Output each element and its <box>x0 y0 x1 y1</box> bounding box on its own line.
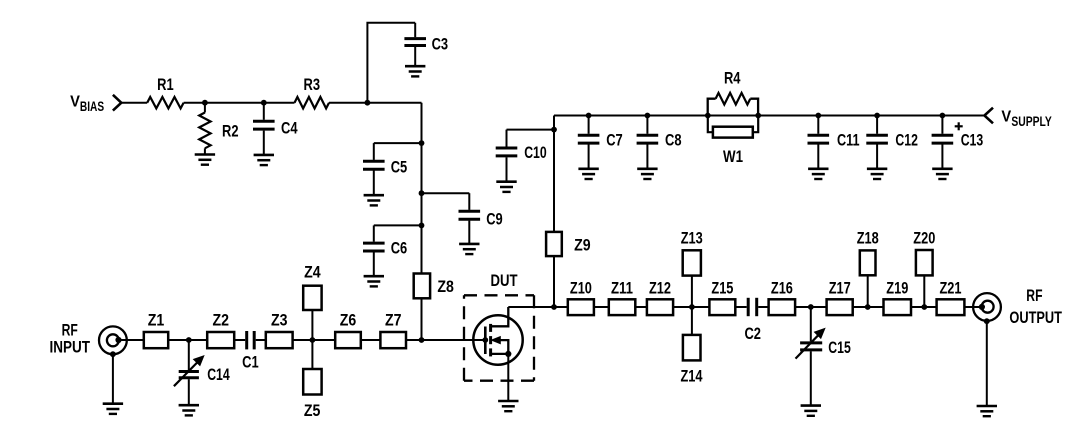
capacitor C6 <box>363 225 407 276</box>
svg-text:Z11: Z11 <box>611 278 633 297</box>
capacitor C7 <box>578 116 623 169</box>
DUT source <box>492 351 512 401</box>
svg-text:OUTPUT: OUTPUT <box>1009 308 1062 327</box>
node R4 right junction <box>755 113 761 119</box>
svg-text:C11: C11 <box>837 130 860 149</box>
svg-text:SUPPLY: SUPPLY <box>1011 114 1051 129</box>
node Z18 junction <box>865 304 871 310</box>
svg-text:Z19: Z19 <box>886 278 908 297</box>
resistor R4 <box>708 68 758 115</box>
svg-text:C12: C12 <box>895 130 918 149</box>
node Z13 Z14 junction <box>689 304 695 310</box>
capacitor C10 <box>496 130 547 182</box>
wire <box>553 116 555 232</box>
terminal VBIAS label <box>70 94 104 115</box>
wire <box>234 339 245 341</box>
wire <box>507 129 555 131</box>
ground <box>637 169 657 179</box>
svg-text:C3: C3 <box>432 34 449 53</box>
wire <box>374 224 422 226</box>
wire <box>406 339 483 341</box>
svg-text:Z4: Z4 <box>304 263 321 282</box>
svg-text:Z7: Z7 <box>385 311 402 330</box>
impedance Z1 <box>144 311 168 349</box>
capacitor C5 <box>363 143 407 195</box>
svg-text:Z20: Z20 <box>913 228 935 247</box>
wire <box>964 306 982 308</box>
node C8 junction <box>645 113 651 119</box>
svg-text:Z15: Z15 <box>711 278 733 297</box>
svg-text:INPUT: INPUT <box>49 338 90 357</box>
impedance Z8 <box>414 274 454 299</box>
impedance Z19 <box>884 278 912 315</box>
node C9 branch <box>419 190 425 196</box>
impedance Z4 <box>303 263 321 341</box>
svg-text:R3: R3 <box>304 75 321 94</box>
capacitor C1 <box>242 331 259 372</box>
svg-text:C2: C2 <box>744 324 761 343</box>
node C4 junction <box>261 100 267 106</box>
wire <box>594 306 609 308</box>
svg-text:Z18: Z18 <box>857 228 879 247</box>
wire <box>735 306 746 308</box>
svg-text:DUT: DUT <box>491 271 519 290</box>
wire <box>121 102 147 104</box>
svg-text:Z3: Z3 <box>271 311 288 330</box>
transistor DUT MOSFET body <box>473 315 522 364</box>
DUT drain <box>492 307 509 326</box>
svg-text:R2: R2 <box>222 121 239 140</box>
capacitor C12 <box>866 116 918 169</box>
DUT body arrow <box>492 337 509 353</box>
svg-text:Z13: Z13 <box>681 228 703 247</box>
svg-text:Z12: Z12 <box>649 278 671 297</box>
terminal VSUPPLY label <box>1001 109 1051 129</box>
DUT dashed box <box>464 295 534 380</box>
ground <box>808 169 828 179</box>
ground <box>459 244 479 254</box>
wire <box>635 306 647 308</box>
impedance Z21 <box>937 278 965 315</box>
node C6 branch <box>419 223 425 229</box>
svg-text:R1: R1 <box>157 75 174 94</box>
DUT gate <box>482 327 488 355</box>
wire <box>421 298 423 340</box>
impedance Z5 <box>303 340 321 420</box>
wire <box>119 339 144 341</box>
wire <box>256 339 266 341</box>
wire <box>374 142 422 144</box>
wire <box>553 256 555 307</box>
impedance Z7 <box>380 311 406 349</box>
svg-text:Z9: Z9 <box>574 235 591 254</box>
wire <box>361 339 381 341</box>
impedance Z2 <box>207 311 234 349</box>
terminal RF OUTPUT label <box>1009 286 1062 327</box>
ground <box>195 155 215 165</box>
capacitor C15 variable <box>796 307 851 406</box>
ground <box>496 182 516 192</box>
svg-text:C6: C6 <box>391 239 408 258</box>
wire <box>367 23 415 103</box>
ground <box>179 405 199 415</box>
svg-text:Z16: Z16 <box>771 278 793 297</box>
capacitor C2 <box>744 298 761 343</box>
VSUPPLY chevron <box>984 108 993 124</box>
impedance Z18 <box>857 228 879 307</box>
node C11 junction <box>815 113 821 119</box>
node C10 branch <box>551 127 557 133</box>
capacitor C9 <box>459 193 503 244</box>
ground <box>801 406 821 416</box>
capacitor C13 polarized <box>932 116 984 169</box>
svg-text:C1: C1 <box>242 353 259 372</box>
wire <box>508 306 554 308</box>
node Z4 Z5 junction <box>310 337 316 343</box>
capacitor C4 <box>253 103 298 155</box>
svg-text:V: V <box>1001 109 1011 126</box>
wire <box>554 115 984 117</box>
svg-text:C14: C14 <box>207 365 230 384</box>
svg-text:C13: C13 <box>961 130 984 149</box>
svg-text:Z8: Z8 <box>437 277 454 296</box>
ground <box>364 276 384 286</box>
wire <box>986 321 988 406</box>
ground <box>977 406 997 416</box>
wire <box>112 354 114 404</box>
capacitor C14 variable <box>174 340 230 405</box>
svg-text:C10: C10 <box>524 143 547 162</box>
ground <box>364 195 384 205</box>
impedance Z14 <box>681 307 704 385</box>
node R4 left junction <box>705 113 711 119</box>
wire <box>422 192 470 194</box>
DUT channel <box>489 324 492 357</box>
svg-text:Z17: Z17 <box>829 278 851 297</box>
svg-text:C15: C15 <box>828 338 851 357</box>
wire <box>264 102 295 104</box>
wire <box>758 306 768 308</box>
impedance Z17 <box>827 278 853 315</box>
VBIAS input chevron <box>113 95 121 111</box>
terminal RF INPUT label <box>49 321 90 357</box>
svg-text:C8: C8 <box>665 130 682 149</box>
ground <box>103 404 123 414</box>
impedance Z15 <box>709 278 735 315</box>
ground <box>405 66 425 76</box>
capacitor C11 <box>808 116 860 169</box>
svg-text:Z5: Z5 <box>304 401 321 420</box>
resistor R1 <box>147 75 183 108</box>
node C14 junction <box>186 337 192 343</box>
wire <box>168 339 207 341</box>
resistor R2 <box>199 103 238 155</box>
connector J1 RF input <box>99 326 127 357</box>
node C7 junction <box>586 113 592 119</box>
impedance Z13 <box>681 228 703 307</box>
svg-text:R4: R4 <box>724 68 741 87</box>
node C3 branch <box>365 100 371 106</box>
node Z8 junction <box>419 337 425 343</box>
node C15 junction <box>808 304 814 310</box>
wire <box>911 306 937 308</box>
impedance Z3 <box>266 311 293 349</box>
resistor R3 <box>295 75 330 108</box>
ground <box>578 169 598 179</box>
wire <box>554 306 568 308</box>
svg-text:Z2: Z2 <box>212 311 229 330</box>
node drain Z9 junction <box>551 304 557 310</box>
svg-text:C9: C9 <box>486 210 503 229</box>
svg-text:Z1: Z1 <box>148 311 165 330</box>
wire <box>293 339 336 341</box>
svg-text:BIAS: BIAS <box>80 99 104 114</box>
wire <box>421 103 423 274</box>
ground <box>867 169 887 179</box>
svg-text:Z14: Z14 <box>681 366 704 385</box>
svg-text:Z21: Z21 <box>940 278 962 297</box>
impedance Z16 <box>769 278 796 315</box>
ground <box>932 169 952 179</box>
ground <box>254 155 274 165</box>
node R2 junction <box>202 100 208 106</box>
svg-text:Z6: Z6 <box>340 311 357 330</box>
wire <box>329 102 422 104</box>
svg-text:C4: C4 <box>281 119 298 138</box>
impedance Z11 <box>609 278 636 315</box>
connector J2 RF output <box>973 293 1001 324</box>
svg-text:C5: C5 <box>391 158 408 177</box>
wire <box>184 102 264 104</box>
node C12 junction <box>874 113 880 119</box>
impedance Z20 <box>913 228 935 307</box>
impedance Z10 <box>568 278 594 315</box>
wire <box>853 306 884 308</box>
ground <box>498 401 518 411</box>
node C13 junction <box>940 113 946 119</box>
svg-text:Z10: Z10 <box>570 278 592 297</box>
impedance Z12 <box>647 278 673 315</box>
node Z20 junction <box>921 304 927 310</box>
wire <box>673 306 709 308</box>
impedance Z6 <box>335 311 361 349</box>
capacitor C8 <box>637 116 682 169</box>
capacitor C3 <box>404 23 448 66</box>
DUT label <box>491 271 519 290</box>
impedance Z9 <box>546 232 591 256</box>
svg-text:W1: W1 <box>723 147 743 166</box>
svg-text:C7: C7 <box>606 130 623 149</box>
wire <box>795 306 827 308</box>
svg-text:RF: RF <box>1026 286 1042 305</box>
jumper W1 <box>708 116 758 167</box>
node C5 branch <box>419 140 425 146</box>
